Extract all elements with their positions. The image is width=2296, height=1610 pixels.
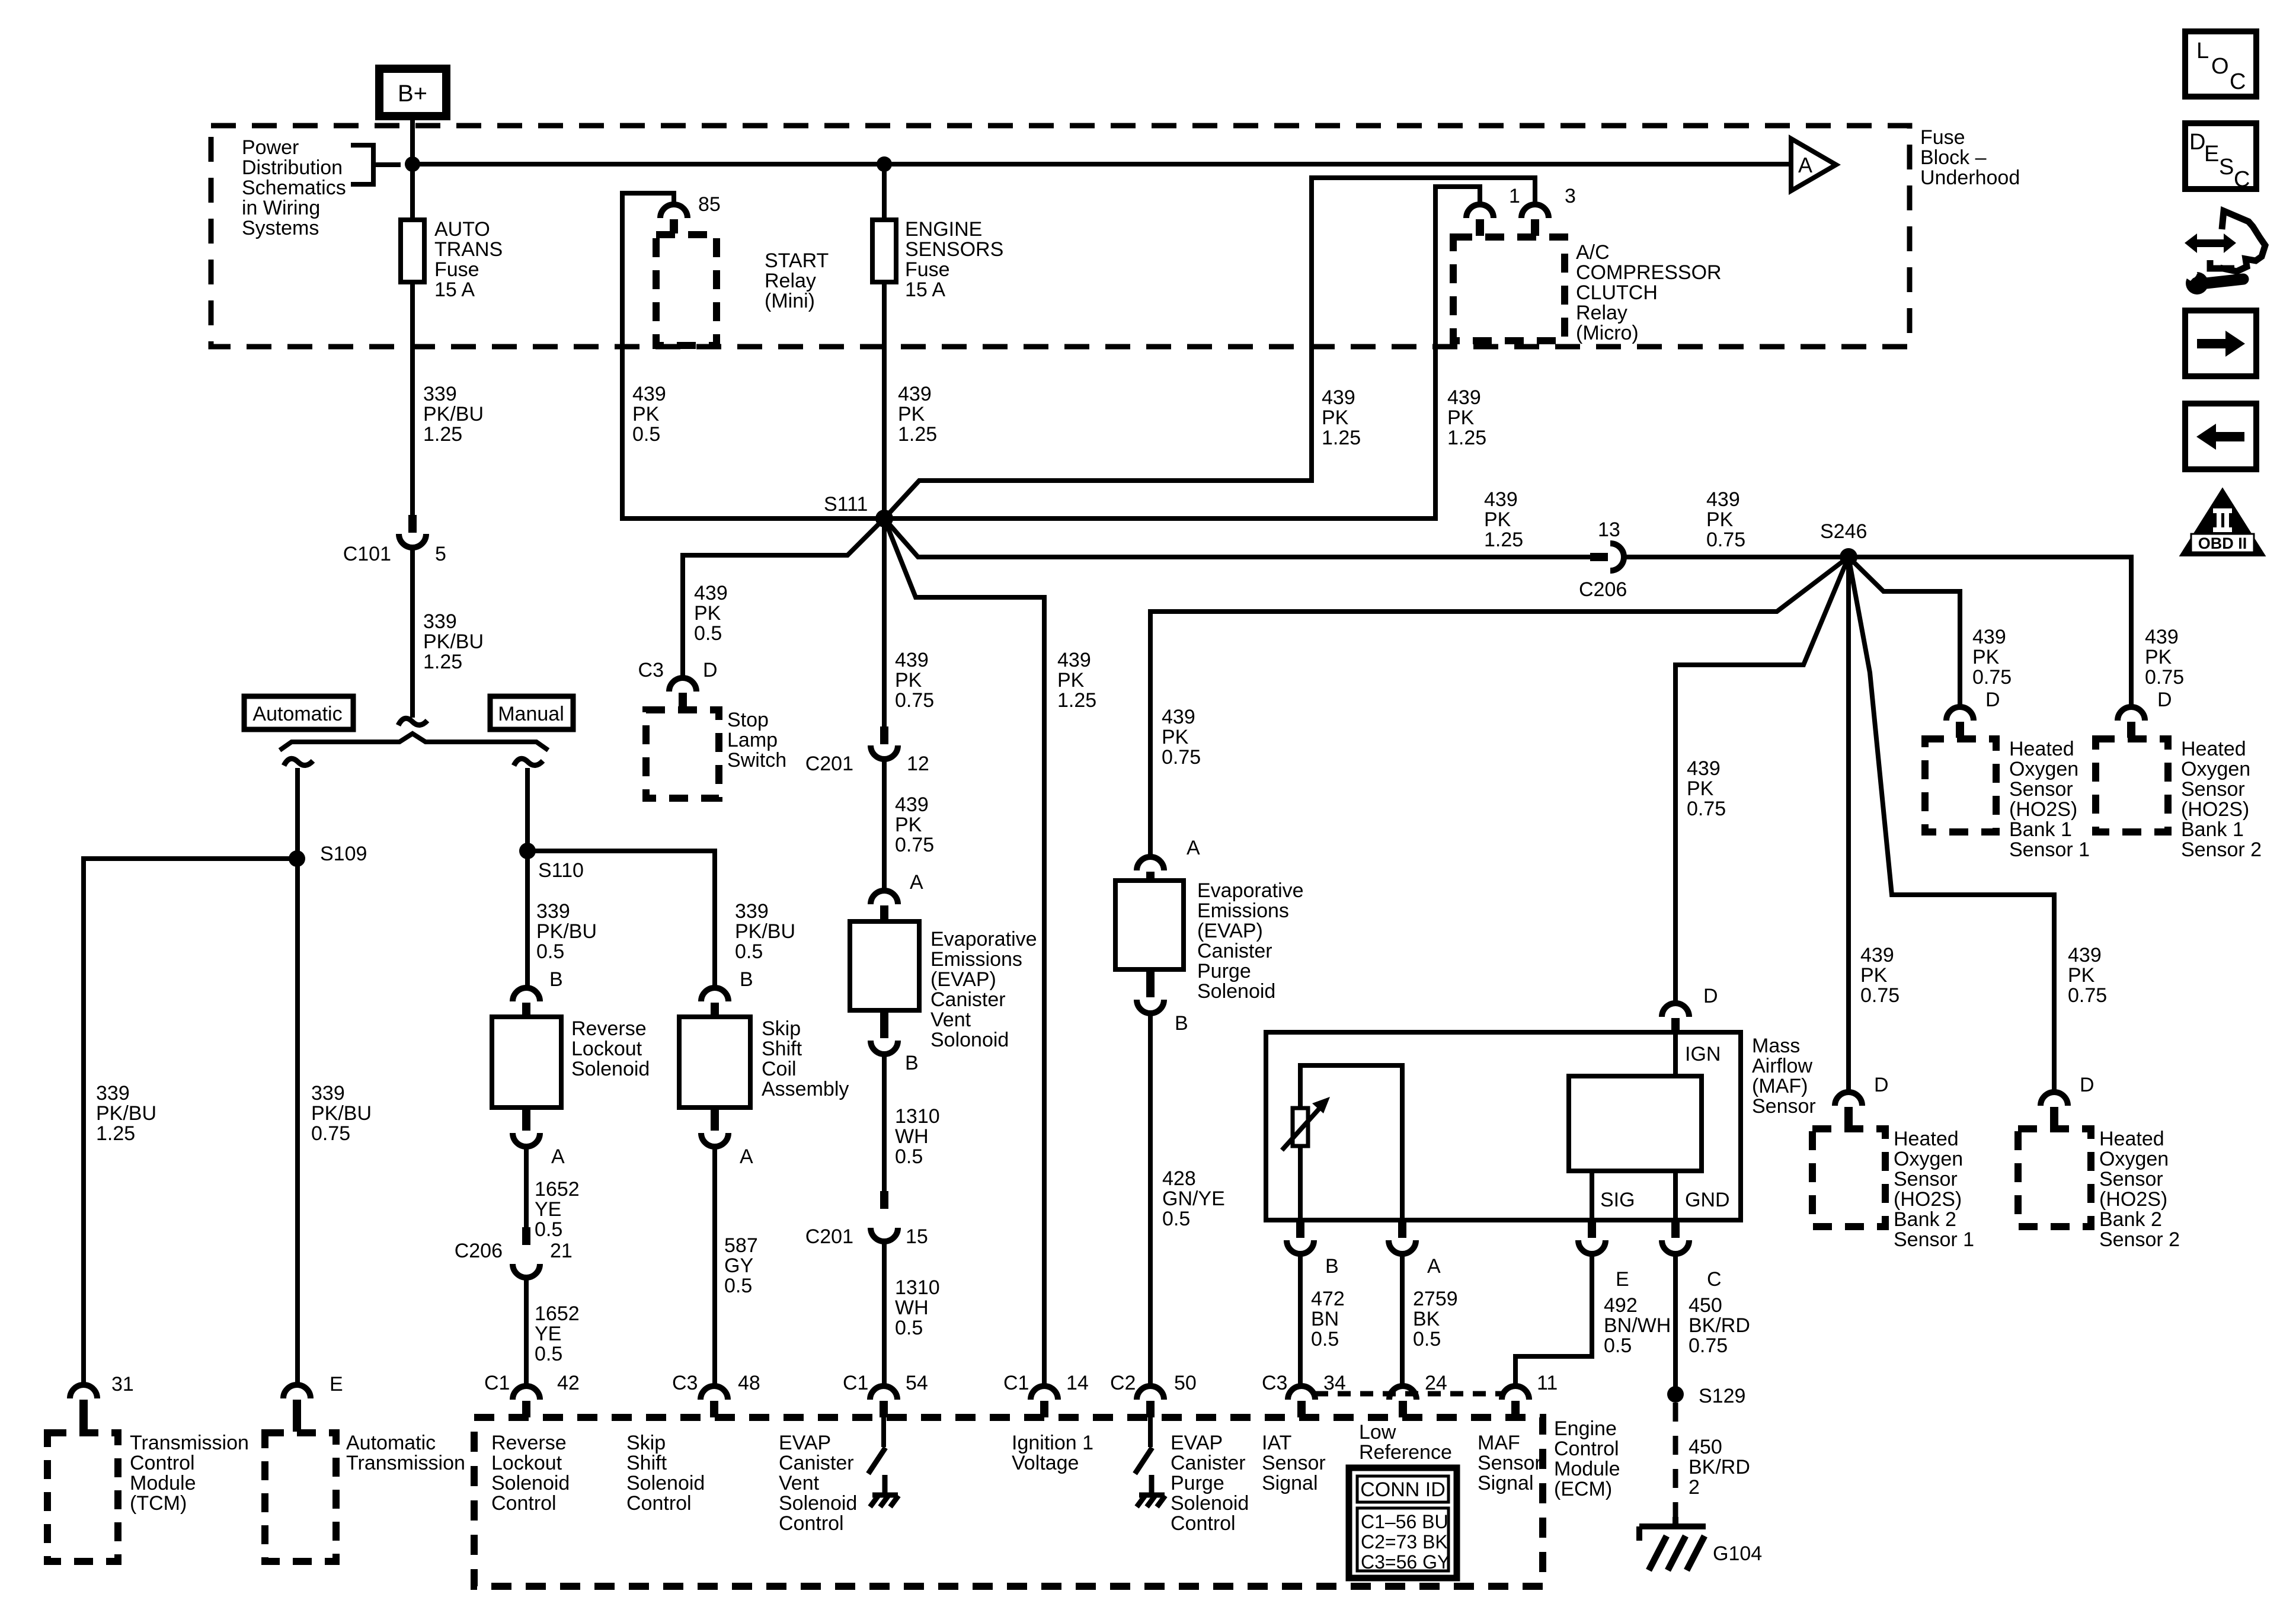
label G104 (1713, 1542, 1762, 1565)
wire S111 to AC relay pin 3 (884, 178, 1535, 518)
label pin A skip shift (740, 1145, 753, 1168)
svg-text:GND: GND (1685, 1189, 1730, 1211)
label pin B EVAP purge (1175, 1012, 1188, 1035)
label Stop Lamp Switch (727, 709, 786, 772)
svg-text:C2: C2 (1110, 1372, 1136, 1394)
wire 1652 YE upper (524, 1147, 529, 1244)
svg-text:D: D (2157, 689, 2172, 711)
label pin E (330, 1373, 343, 1395)
component Automatic Transmission dashed box (265, 1433, 336, 1561)
label IAT Sensor Signal (1262, 1432, 1326, 1494)
component START Relay dashed box (656, 235, 717, 345)
label pin A EVAP purge (1187, 837, 1200, 859)
connector C3 pin D at stop lamp switch (669, 678, 696, 709)
wire 428 GN/YE (1148, 1013, 1153, 1386)
label pin E MAF sig (1616, 1268, 1629, 1291)
wire S246 to HO2S bank2 sensor2 (1849, 557, 2054, 1092)
wire S246 to MAF IGN (1675, 557, 1849, 1003)
connector pin D at HO2S bank2 sensor2 (2041, 1092, 2068, 1128)
svg-text:A: A (1798, 153, 1812, 177)
svg-text:C206: C206 (1579, 578, 1627, 601)
label 587 GY 0.5 (724, 1234, 758, 1297)
wire S109 spur to TCM (84, 859, 298, 1385)
label pin 5 of C101 (435, 543, 446, 565)
label pin 21 (550, 1240, 573, 1262)
label pin B skip shift (740, 968, 753, 991)
label 439 PK 0.75 b2s1 (1860, 944, 1900, 1007)
option box Automatic (244, 696, 353, 729)
label C2 at pin 50 (1110, 1372, 1136, 1394)
connector pin D at HO2S bank1 sensor2 (2118, 707, 2145, 738)
wire engine sensors fuse drop (882, 164, 887, 220)
svg-text:13: 13 (1598, 518, 1620, 541)
svg-text:CONN ID: CONN ID (1360, 1478, 1446, 1501)
wire 1310 WH lower (882, 1241, 887, 1386)
label 339 PK/BU 1.25 upper (423, 383, 484, 446)
icon DESC box (2185, 123, 2256, 192)
label 439 PK 1.25 at S111 feed (898, 383, 937, 446)
label pin B MAF IAT (1325, 1255, 1339, 1278)
label C201 lower (805, 1225, 853, 1248)
wire S246 to HO2S bank1 sensor1 (1849, 557, 1960, 707)
svg-text:S246: S246 (1820, 520, 1867, 543)
icon OBD II triangle (2182, 491, 2263, 555)
icon LOC box (2185, 31, 2256, 97)
wire C201-12 to EVAP vent solenoid (882, 759, 887, 891)
component Reverse Lockout Solenoid (492, 1017, 561, 1108)
svg-text:A: A (551, 1145, 565, 1168)
wire 450 BK/RD to S129 (1673, 1254, 1678, 1394)
label 439 PK 1.25 pin3 wire (1322, 386, 1361, 449)
label pin 31 (111, 1373, 134, 1395)
svg-text:B+: B+ (398, 81, 427, 107)
svg-text:5: 5 (435, 543, 446, 565)
connector C3 pin 48 at ECM (701, 1386, 728, 1417)
off-page arrow A (1791, 139, 1836, 191)
label A/C COMPRESSOR CLUTCH Relay (Micro) (1576, 241, 1722, 344)
ground EVAP vent driver (870, 1475, 898, 1507)
label 439 PK 1.25 pin1 wire (1447, 386, 1486, 449)
connector pin D at HO2S bank2 sensor1 (1835, 1092, 1862, 1128)
label Engine Control Module (ECM) (1554, 1417, 1620, 1500)
wire Manual branch to S110 (525, 768, 530, 851)
connector pin B below EVAP vent solenoid (871, 1012, 898, 1054)
svg-text:C206: C206 (455, 1240, 503, 1262)
connector pin A at EVAP vent solenoid (871, 891, 898, 920)
svg-text:Automatic: Automatic (252, 703, 342, 725)
svg-text:B: B (1175, 1012, 1188, 1035)
dashed wire 450 BK/RD 2 to G104 (1673, 1403, 1678, 1517)
label 439 PK 0.75 b1s1 (1972, 626, 2012, 689)
wire thermistor to B pin (1298, 1146, 1303, 1220)
svg-text:E: E (330, 1373, 343, 1395)
wire thermistor loop to A pin (1300, 1065, 1402, 1220)
label SIG terminal (1600, 1189, 1635, 1211)
ground G104 (1639, 1517, 1706, 1570)
connector pin A below reverse lockout solenoid (513, 1109, 540, 1147)
wire S111 to ignition 1 voltage pin (884, 518, 1044, 1386)
svg-text:A: A (1187, 837, 1200, 859)
wire 1652 YE lower (524, 1278, 529, 1386)
icon back arrow box (2185, 404, 2256, 469)
option box Manual (490, 696, 573, 729)
connector pin 24 at ECM (1389, 1386, 1416, 1417)
component EVAP Canister Vent Solenoid (850, 921, 919, 1010)
svg-text:D: D (2080, 1074, 2094, 1096)
svg-text:24: 24 (1425, 1372, 1447, 1394)
label START Relay (Mini) (765, 249, 829, 312)
svg-text:14: 14 (1066, 1372, 1089, 1394)
label S111 (824, 493, 868, 516)
switch EVAP purge driver (1135, 1448, 1152, 1474)
wire GND pin inside MAF (1673, 1171, 1678, 1220)
wire 2759 BK low reference (1400, 1254, 1405, 1386)
svg-text:S110: S110 (538, 859, 584, 882)
connector pin 85 at start relay (660, 204, 687, 233)
splice S110 (519, 843, 536, 859)
connector C201 pin 12 inline (871, 726, 898, 759)
wire fuse to S111 (882, 282, 887, 518)
svg-text:EngineControlModule(ECM): EngineControlModule(ECM) (1554, 1417, 1620, 1500)
icon repair instructions wrench (2183, 211, 2265, 295)
svg-text:C201: C201 (805, 1225, 853, 1248)
svg-text:S129: S129 (1699, 1385, 1745, 1407)
label 339 PK/BU 0.75 to transmission (311, 1082, 372, 1145)
label Heated Oxygen Sensor HO2S Bank 1 Sensor 2 (2181, 738, 2262, 861)
label C201 upper (805, 753, 853, 775)
hook start of Manual branch (514, 758, 543, 766)
label pin 11 (1537, 1372, 1558, 1394)
label pin C MAF gnd (1707, 1268, 1722, 1291)
label Evaporative Emissions EVAP Canister Purge Solenoid (1197, 879, 1304, 1003)
label C1 at pin 42 (484, 1372, 510, 1394)
component Skip Shift Coil Assembly (679, 1017, 750, 1108)
wire S110 spur to skip shift coil (527, 851, 715, 988)
connector pin C below MAF (1662, 1221, 1689, 1254)
connector pin B below EVAP purge solenoid (1137, 971, 1164, 1013)
icon forward arrow box (2185, 311, 2256, 376)
svg-text:C1: C1 (1003, 1372, 1029, 1394)
wire S111 to AC relay pin 1 (884, 187, 1480, 518)
label C206 inline lower (455, 1240, 503, 1262)
label C3 stop lamp (638, 659, 664, 681)
label GND terminal (1685, 1189, 1730, 1211)
label Reverse Lockout Solenoid Control (491, 1432, 570, 1515)
battery feed terminal B+ (379, 69, 446, 116)
wire B+ down to junction (410, 116, 415, 164)
node junction at B+ feed (405, 156, 420, 172)
label 439 PK 0.75 MAF ign (1687, 757, 1726, 820)
wire ECM purge driver stub (1148, 1417, 1153, 1447)
wire S246 to HO2S bank1 sensor2 (1849, 557, 2131, 707)
wire main feed horizontal to arrow A (412, 162, 1791, 167)
label S110 (538, 859, 584, 882)
connector pin A below skip shift coil (701, 1109, 728, 1147)
label 472 BN 0.5 (1311, 1288, 1345, 1350)
component HO2S Bank1 Sensor2 dashed box (2096, 739, 2168, 832)
component AC Compressor Clutch Relay dashed box (1453, 237, 1565, 341)
svg-text:S111: S111 (824, 493, 868, 516)
MAF electronics inner box (1569, 1076, 1702, 1171)
splice S109 (289, 850, 305, 867)
label S109 (320, 843, 367, 865)
svg-text:ReverseLockoutSolenoid: ReverseLockoutSolenoid (571, 1017, 650, 1080)
svg-text:IGN: IGN (1685, 1043, 1721, 1065)
svg-text:85: 85 (698, 193, 721, 216)
label pin B reverse lockout (549, 968, 563, 991)
wire S246 to HO2S bank2 sensor1 (1846, 557, 1851, 1092)
label pin D b1s1 (1985, 689, 2000, 711)
svg-text:50: 50 (1174, 1372, 1197, 1394)
fuse block underhood dashed box (211, 126, 1910, 347)
svg-text:OBD II: OBD II (2198, 534, 2247, 552)
svg-text:S109: S109 (320, 843, 367, 865)
component EVAP Canister Purge Solenoid (1115, 881, 1184, 969)
svg-text:1: 1 (1509, 185, 1520, 207)
label Skip Shift Solenoid Control (626, 1432, 705, 1515)
connector pin A at EVAP purge solenoid (1137, 857, 1164, 879)
connector C3 pin 34 at ECM (1288, 1386, 1315, 1417)
wire end hook at split (398, 718, 427, 725)
svg-text:C3: C3 (672, 1372, 698, 1394)
wire 339 PK/BU below fuse (410, 282, 415, 515)
IAT thermistor element (1282, 1097, 1330, 1150)
svg-text:21: 21 (550, 1240, 573, 1262)
svg-text:D: D (1703, 985, 1718, 1007)
label S129 (1699, 1385, 1745, 1407)
label pin 3 (1565, 185, 1576, 207)
label pin D b2s1 (1874, 1074, 1889, 1096)
label Skip Shift Coil Assembly (762, 1017, 849, 1100)
label 439 PK 0.75 above C201 (895, 649, 934, 712)
label Low Reference (1359, 1421, 1452, 1464)
svg-text:C1–56 BU: C1–56 BU (1361, 1511, 1448, 1532)
svg-text:SIG: SIG (1600, 1189, 1635, 1211)
connector pin B at skip shift coil (701, 988, 728, 1016)
module Engine Control Module ECM dashed box (474, 1417, 1543, 1586)
label EVAP Canister Vent Solenoid Control (779, 1432, 857, 1535)
label 1310 WH 0.5 upper (895, 1105, 940, 1168)
svg-text:E: E (1616, 1268, 1629, 1291)
label pin D b2s2 (2080, 1074, 2094, 1096)
label 492 BN/WH 0.5 (1604, 1294, 1671, 1357)
svg-text:31: 31 (111, 1373, 134, 1395)
label pin 1 (1509, 185, 1520, 207)
label Mass Airflow (MAF) Sensor (1752, 1035, 1816, 1118)
label 339 PK/BU 0.5 right (735, 900, 795, 963)
splice S129 (1667, 1386, 1684, 1403)
label 439 PK 1.25 before C206 (1484, 488, 1523, 551)
wire SIG pin inside MAF (1590, 1171, 1594, 1220)
svg-text:11: 11 (1537, 1372, 1558, 1394)
label 450 BK/RD 2 (1689, 1436, 1750, 1499)
svg-text:3: 3 (1565, 185, 1576, 207)
label C1 at pin 54 (843, 1372, 868, 1394)
svg-text:C3: C3 (1262, 1372, 1287, 1394)
label pin 42 (557, 1372, 580, 1394)
CONN ID table (1349, 1468, 1457, 1578)
connector pin D at MAF sensor (1662, 1003, 1689, 1032)
label pin 50 (1174, 1372, 1197, 1394)
svg-text:S: S (2219, 155, 2234, 180)
connector pin 3 at AC relay (1521, 204, 1549, 236)
connector pin E below MAF (1578, 1221, 1606, 1254)
svg-text:D: D (703, 659, 718, 681)
component Mass Airflow MAF Sensor box (1266, 1032, 1741, 1220)
label pin 15 (906, 1225, 928, 1248)
connector C1 pin 14 at ECM (1031, 1386, 1058, 1417)
wire S246 to EVAP purge solenoid (1150, 557, 1849, 857)
connector C2 pin 50 at ECM (1137, 1386, 1164, 1417)
svg-text:54: 54 (906, 1372, 928, 1394)
connector C1 pin 42 at ECM (513, 1386, 540, 1417)
label 1652 YE 0.5 upper (535, 1178, 580, 1241)
wire C101 to split (410, 548, 415, 718)
wire C206 to S246 (1625, 555, 1849, 559)
connector pin A below MAF (1389, 1221, 1416, 1254)
svg-text:B: B (905, 1052, 919, 1074)
wire 492 BN/WH MAF signal (1515, 1254, 1592, 1386)
label pin 54 (906, 1372, 928, 1394)
label Reverse Lockout Solenoid (571, 1017, 650, 1080)
label pin 34 (1323, 1372, 1346, 1394)
label C206 inline (1579, 578, 1627, 601)
label 439 PK 0.75 b1s2 (2145, 626, 2184, 689)
label AUTO TRANS Fuse 15 A (434, 218, 503, 301)
svg-text:D: D (1874, 1074, 1889, 1096)
label C1 at pin 14 (1003, 1372, 1029, 1394)
svg-text:B: B (1325, 1255, 1339, 1278)
svg-text:C201: C201 (805, 753, 853, 775)
label pin D b1s2 (2157, 689, 2172, 711)
connector C101 pin 5 (399, 515, 426, 548)
svg-text:42: 42 (557, 1372, 580, 1394)
svg-text:A: A (910, 871, 923, 894)
label IGN terminal (1685, 1043, 1721, 1065)
label S246 (1820, 520, 1867, 543)
label 339 PK/BU 1.25 to TCM (96, 1082, 156, 1145)
label C3 at pin 34 (1262, 1372, 1287, 1394)
component HO2S Bank1 Sensor1 dashed box (1925, 739, 1996, 832)
wire junction to AUTO TRANS fuse (410, 164, 415, 220)
connector C206 pin 13 inline horizontal (1590, 543, 1624, 571)
svg-text:C1: C1 (843, 1372, 868, 1394)
svg-text:12: 12 (907, 753, 929, 775)
svg-text:B: B (549, 968, 563, 991)
svg-text:C1: C1 (484, 1372, 510, 1394)
hook start of Automatic branch (284, 758, 313, 766)
label Automatic Transmission (346, 1432, 465, 1474)
svg-text:D: D (2189, 130, 2205, 155)
svg-text:34: 34 (1323, 1372, 1346, 1394)
svg-text:B: B (740, 968, 753, 991)
label Heated Oxygen Sensor HO2S Bank 2 Sensor 2 (2099, 1128, 2180, 1251)
label Heated Oxygen Sensor HO2S Bank 2 Sensor 1 (1894, 1128, 1974, 1251)
label Fuse Block - Underhood (1920, 126, 2020, 189)
label C101 (343, 543, 391, 565)
label Power Distribution Schematics in Wiring Systems (242, 136, 346, 239)
wire IGN into MAF electronics (1673, 1032, 1678, 1076)
label 439 PK 1.25 ignition wire (1057, 649, 1096, 712)
label 339 PK/BU 1.25 lower (423, 610, 484, 673)
label 439 PK 0.75 b2s2 (2068, 944, 2107, 1007)
label 439 PK 0.75 before S246 (1706, 488, 1745, 551)
connector pin E at automatic transmission (283, 1385, 311, 1432)
label pin D MAF (1703, 985, 1718, 1007)
connector pin D at HO2S bank1 sensor1 (1946, 707, 1974, 738)
label pin 13 (1598, 518, 1620, 541)
svg-text:C101: C101 (343, 543, 391, 565)
connector pin B at reverse lockout solenoid (513, 988, 540, 1016)
component HO2S Bank2 Sensor2 dashed box (2018, 1129, 2091, 1227)
wire S111 to C206 (884, 518, 1591, 557)
svg-text:Manual: Manual (498, 703, 564, 725)
svg-text:C3=56 GY: C3=56 GY (1361, 1551, 1450, 1573)
label Transmission Control Module (TCM) (130, 1432, 249, 1515)
label pin 24 (1425, 1372, 1447, 1394)
svg-text:A: A (740, 1145, 753, 1168)
splice S246 (1840, 548, 1857, 566)
label 428 GN/YE 0.5 (1162, 1167, 1225, 1230)
label 439 PK 0.5 start relay wire (632, 383, 666, 446)
connector C201 pin 15 inline (871, 1191, 898, 1241)
component Stop Lamp Switch dashed box (646, 710, 719, 798)
label 450 BK/RD 0.75 (1689, 1294, 1750, 1357)
label pin B EVAP vent (905, 1052, 919, 1074)
svg-text:C3: C3 (638, 659, 664, 681)
component HO2S Bank2 Sensor1 dashed box (1812, 1129, 1885, 1227)
label pin 48 (738, 1372, 760, 1394)
wire S110 to reverse lockout solenoid (525, 851, 530, 988)
label Evaporative Emissions EVAP Canister Vent Solonoid (930, 928, 1037, 1051)
label 2759 BK 0.5 (1413, 1288, 1458, 1350)
svg-text:G104: G104 (1713, 1542, 1762, 1565)
label pin A reverse lockout (551, 1145, 565, 1168)
label EVAP Canister Purge Solenoid Control (1171, 1432, 1249, 1535)
svg-text:C: C (1707, 1268, 1722, 1291)
ground EVAP purge driver (1137, 1475, 1165, 1507)
splice S111 (875, 510, 893, 527)
svg-text:E: E (2204, 142, 2219, 167)
connector pin 11 at ECM (1502, 1386, 1529, 1417)
wire 472 BN IAT signal (1298, 1254, 1303, 1386)
label C3 at pin 48 (672, 1372, 698, 1394)
label pin D stop lamp (703, 659, 718, 681)
wire S111 to start relay (622, 193, 884, 518)
svg-text:C: C (2234, 167, 2250, 192)
svg-text:O: O (2211, 54, 2229, 79)
node at engine sensors fuse tap (877, 156, 892, 172)
label 339 PK/BU 0.5 left (536, 900, 597, 963)
label 439 PK 0.75 purge feed (1162, 706, 1201, 769)
label pin 12 (907, 753, 929, 775)
label ENGINE SENSORS Fuse 15 A (905, 218, 1003, 301)
label MAF Sensor Signal (1478, 1432, 1542, 1494)
label 1310 WH 0.5 lower (895, 1276, 940, 1339)
fuse ENGINE SENSORS 15A (872, 220, 896, 282)
wire 1310 WH upper (882, 1054, 887, 1191)
connector pin B below MAF (1287, 1221, 1314, 1254)
label pin A MAF lowref (1427, 1255, 1441, 1278)
label 1652 YE 0.5 lower (535, 1302, 580, 1365)
dashed harness link pins 34-24-11 (1315, 1391, 1502, 1397)
label Heated Oxygen Sensor HO2S Bank 1 Sensor 1 (2009, 738, 2090, 861)
svg-text:15: 15 (906, 1225, 928, 1248)
label pin A EVAP vent (910, 871, 923, 894)
connector C1 pin 54 at ECM (870, 1386, 897, 1417)
brace split of circuit options (280, 734, 548, 750)
label pin 14 (1066, 1372, 1089, 1394)
